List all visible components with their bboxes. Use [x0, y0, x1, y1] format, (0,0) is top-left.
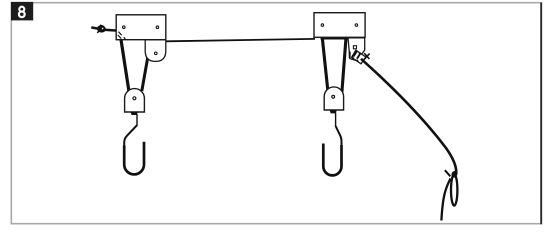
left ceiling bracket plate — [116, 15, 166, 40]
cleat plate under right bracket — [348, 38, 365, 61]
wire: right return rope leg up to cleat plate — [342, 39, 346, 92]
wire: left return rope leg from tab pulley down to movable pulley — [142, 57, 148, 92]
left hook stem — [136, 114, 138, 126]
rope hidden-pass break marks on left bracket — [118, 32, 126, 40]
left movable pulley block — [125, 89, 145, 115]
wire: right anchor rope leg down to movable pulley — [322, 39, 328, 92]
right hook stem — [335, 113, 337, 127]
right hook — [336, 126, 342, 147]
rope pull loop — [441, 170, 458, 220]
left bracket pulley tab — [145, 40, 166, 62]
wire: left anchor rope leg down to movable pulley — [121, 39, 129, 91]
right ceiling bracket plate — [314, 13, 365, 38]
rope cleat — [350, 50, 370, 64]
right movable pulley block — [324, 87, 343, 114]
rope end knot at left bracket — [91, 25, 116, 34]
left hook — [124, 125, 137, 147]
step number badge 8 — [11, 2, 33, 21]
wire: pull rope from cleat down right — [361, 59, 456, 174]
wire: horizontal rope from left pulley tab to right bracket — [166, 39, 315, 41]
wire: rope passing under right bracket to cleat plate — [321, 37, 349, 40]
